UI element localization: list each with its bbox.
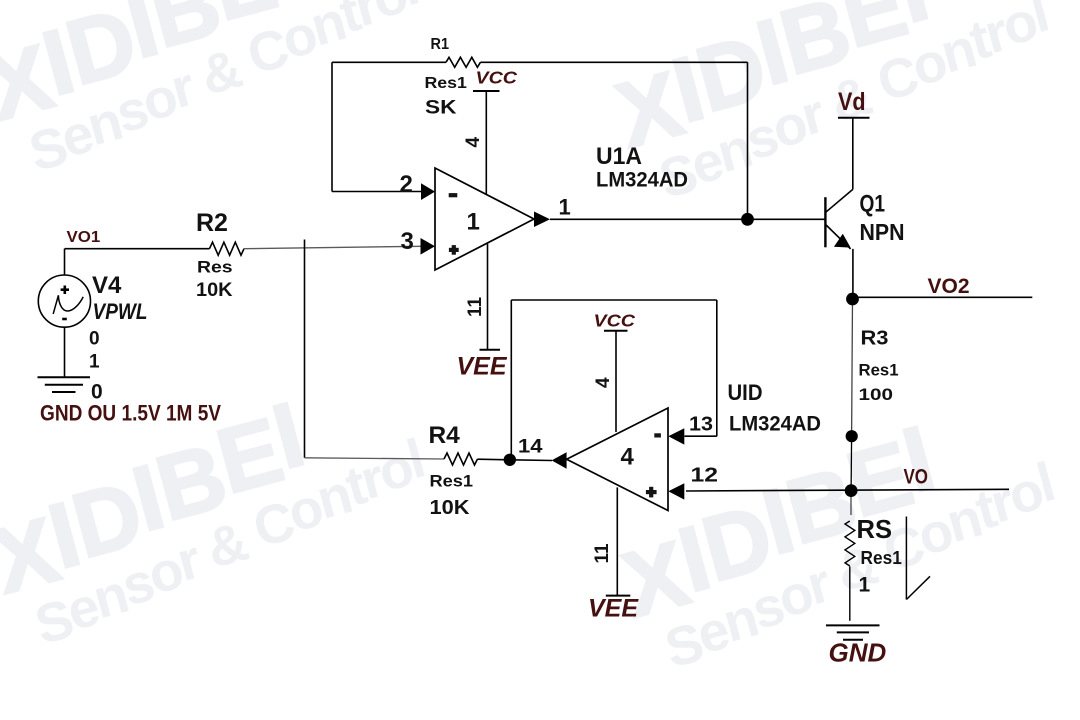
svg-text:LM324AD: LM324AD <box>729 412 821 436</box>
svg-text:4: 4 <box>463 137 484 148</box>
svg-text:10K: 10K <box>430 497 471 519</box>
svg-text:VO2: VO2 <box>928 275 970 298</box>
svg-text:1: 1 <box>859 574 871 597</box>
svg-text:R2: R2 <box>196 209 228 237</box>
svg-text:4: 4 <box>593 377 614 388</box>
svg-text:V4: V4 <box>92 272 122 299</box>
svg-text:SK: SK <box>425 98 457 119</box>
svg-text:1: 1 <box>467 209 480 236</box>
svg-text:2: 2 <box>400 171 413 198</box>
svg-text:0: 0 <box>89 329 100 350</box>
svg-text:NPN: NPN <box>860 219 905 245</box>
svg-text:Q1: Q1 <box>860 191 886 218</box>
svg-text:12: 12 <box>691 465 719 487</box>
svg-text:4: 4 <box>621 444 635 471</box>
svg-text:13: 13 <box>689 414 713 436</box>
svg-text:11: 11 <box>592 543 613 564</box>
svg-text:LM324AD: LM324AD <box>596 168 688 192</box>
svg-text:VEE: VEE <box>588 595 639 623</box>
svg-text:VCC: VCC <box>594 311 636 331</box>
svg-text:Vd: Vd <box>838 88 866 116</box>
svg-text:14: 14 <box>518 437 543 458</box>
svg-text:R4: R4 <box>429 422 461 449</box>
svg-text:3: 3 <box>401 228 414 255</box>
svg-text:Res1: Res1 <box>430 473 474 491</box>
svg-text:R3: R3 <box>861 328 889 350</box>
svg-text:VEE: VEE <box>457 353 508 381</box>
svg-text:Res: Res <box>197 259 233 277</box>
svg-text:UID: UID <box>728 380 763 405</box>
svg-text:VO: VO <box>904 466 929 489</box>
svg-text:R1: R1 <box>431 36 450 53</box>
svg-text:Res1: Res1 <box>861 548 902 568</box>
svg-text:U1A: U1A <box>596 143 642 170</box>
svg-text:GND OU 1.5V 1M 5V: GND OU 1.5V 1M 5V <box>40 401 221 426</box>
svg-text:VCC: VCC <box>476 68 518 88</box>
svg-text:Res1: Res1 <box>859 362 899 380</box>
svg-text:GND: GND <box>829 638 887 668</box>
svg-text:1: 1 <box>89 352 100 373</box>
svg-text:Res1: Res1 <box>425 75 468 92</box>
svg-text:1: 1 <box>559 195 571 220</box>
svg-text:VO1: VO1 <box>67 229 101 246</box>
svg-text:RS: RS <box>857 516 893 544</box>
svg-text:10K: 10K <box>196 280 233 301</box>
svg-text:11: 11 <box>465 296 486 317</box>
svg-text:VPWL: VPWL <box>93 299 148 324</box>
svg-text:100: 100 <box>859 385 894 404</box>
